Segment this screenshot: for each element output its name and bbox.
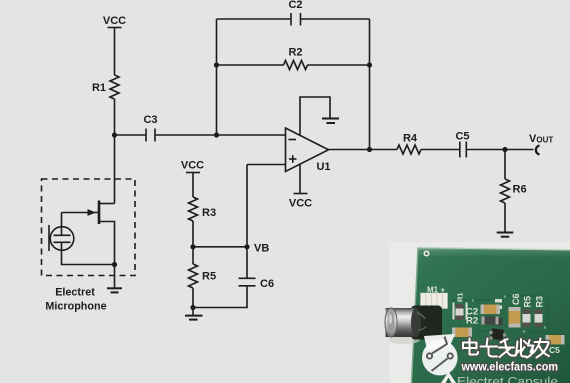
op-amp U1 [286,128,329,172]
svg-text:R2: R2 [466,316,478,327]
wire R3 to VB [192,221,194,247]
wire VB to C6 [246,247,248,278]
VCC symbol below op-amp [294,193,308,195]
wire R6 to ground [504,203,506,233]
capacitor C6 [239,278,256,286]
wire op-amp bottom to VCC [299,164,301,194]
wire VB horizontal [193,246,247,248]
mic capsule cylinder [386,308,427,337]
microphone dashed box [42,179,136,276]
mic footprint pad [421,293,448,309]
transistor Q1 smd [490,328,507,340]
svg-text:C6: C6 [260,278,274,290]
node source junction dot [112,262,117,267]
wire feedback left rail [216,19,218,135]
component R3 [535,310,543,328]
svg-text:R5: R5 [523,296,533,308]
wire node A to C3 [115,134,147,136]
svg-text:www.elecfans.com: www.elecfans.com [461,360,558,374]
VOUT terminal [536,146,540,155]
svg-text:C5: C5 [549,345,560,355]
wire to mic ground [114,265,116,289]
component R2 [482,317,499,325]
svg-text:C2: C2 [288,0,302,11]
ground above op-amp [322,119,339,124]
wire C2 right [301,18,370,20]
wire R5 bottom [192,288,194,316]
mic capsule shadow [388,306,442,345]
component C6 [509,307,521,328]
wire C6 bottom [193,286,247,308]
photo background [389,242,570,383]
VCC symbol top-left [108,28,122,76]
wire feedback right rail [369,19,371,150]
dark component mid [495,318,503,326]
svg-text:R2: R2 [288,47,302,59]
wire R4 to C5 [421,149,460,151]
svg-text:Electret Capsule: Electret Capsule [457,377,558,383]
resistor R6 [501,179,510,203]
svg-text:R4: R4 [403,133,418,145]
node ground junction dot [190,305,195,310]
svg-text:R1: R1 [92,82,106,94]
resistor R3 [189,197,198,221]
wire op-amp top to ground [300,97,330,135]
svg-text:Electret: Electret [55,286,95,298]
resistor R4 [397,145,421,154]
microphone capsule [49,225,74,251]
wire R5 top [192,247,194,264]
svg-text:R5: R5 [202,271,216,283]
svg-text:R3: R3 [202,207,216,219]
resistor R5 [189,264,198,288]
silkscreen C6 R5 R3 [511,293,545,307]
wire R1 to node A [114,99,116,135]
capacitor C3 [146,129,155,142]
node R2 left junction dot [214,62,219,67]
white logo fragment bottom [441,372,456,383]
node R2 right junction dot [367,62,372,67]
node VB junction dot [244,244,249,249]
capacitor C5 [460,142,467,158]
component C2 [481,305,501,315]
transistor Q1 JFET [62,201,115,265]
pcb traces [452,296,548,339]
wire mic rail [114,135,116,204]
wire minus input [217,134,286,136]
svg-text:Microphone: Microphone [45,300,106,312]
mounting hole [424,251,430,257]
wire R2 right [308,64,370,66]
svg-text:VCC: VCC [181,160,204,172]
ground below R6 [497,233,514,237]
watermark logo circle [422,334,458,376]
node B junction dot [214,132,219,137]
component C5 [546,335,565,345]
svg-text:C3: C3 [143,114,157,126]
wire capsule bottom [62,242,115,264]
PCB board [412,248,570,383]
svg-text:VB: VB [254,243,269,255]
svg-text:C6: C6 [511,293,521,305]
VCC symbol mid (divider) [186,173,200,198]
wire C5 to VOUT [466,149,533,151]
capacitor C2 [291,13,301,26]
svg-text:VCC: VCC [289,198,312,210]
wire VB to plus input [246,165,248,247]
mic capsule end cap [385,308,397,337]
schematic text labels [45,0,553,312]
svg-text:R6: R6 [513,184,527,196]
wire output [329,149,398,151]
node R3R5 junction dot [190,244,195,249]
watermark chinese text [463,339,549,358]
wire R2 left [217,64,284,66]
node A junction dot [112,132,117,137]
ground below R5 [185,316,203,320]
component R5 [523,310,531,328]
ground below mic [107,288,122,292]
svg-text:R1: R1 [456,292,465,302]
svg-text:VCC: VCC [103,15,126,27]
svg-text:U1: U1 [316,161,330,173]
resistor R1 [110,75,119,99]
node output junction dot [367,147,372,152]
wire gate down [61,213,63,236]
wire R6 top [504,150,506,180]
wire C3 to node B [155,134,217,136]
label Electret Microphone [45,286,106,312]
silkscreen C2 R2 [466,307,478,327]
component C1 [452,328,472,338]
svg-text:C5: C5 [455,131,469,143]
svg-text:R3: R3 [535,296,545,308]
component R1 [456,292,465,320]
svg-text:VOUT: VOUT [529,133,553,145]
resistor R2 [284,61,308,70]
silkscreen pads center [453,299,503,320]
wire C2 left [217,18,292,20]
node R6 top junction dot [502,147,507,152]
wire plus input [247,164,286,166]
photo of PCB board [385,242,570,383]
